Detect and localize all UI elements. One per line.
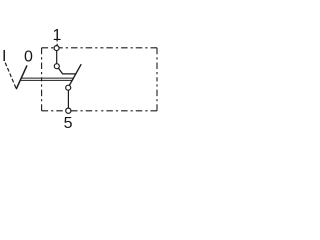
svg-text:0: 0 [24,49,33,66]
svg-text:5: 5 [64,115,73,132]
svg-text:1: 1 [53,27,62,44]
svg-text:I: I [2,48,6,65]
